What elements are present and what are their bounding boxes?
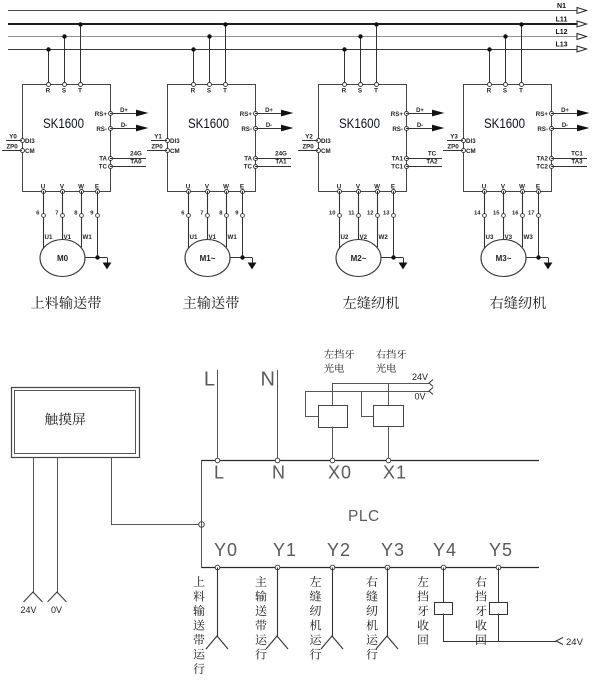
svg-text:CM: CM: [170, 148, 180, 155]
svg-text:X1: X1: [383, 463, 407, 483]
svg-text:RS-: RS-: [537, 126, 548, 133]
svg-text:Y3: Y3: [450, 134, 458, 141]
svg-text:T: T: [78, 88, 82, 95]
svg-text:N: N: [261, 369, 275, 391]
svg-text:0V: 0V: [414, 392, 425, 402]
svg-text:D+: D+: [416, 108, 424, 114]
svg-text:24G: 24G: [275, 151, 287, 158]
svg-text:S: S: [503, 88, 507, 95]
svg-text:S: S: [207, 88, 211, 95]
svg-text:15: 15: [493, 211, 500, 217]
svg-text:Y1: Y1: [154, 134, 162, 141]
svg-text:R: R: [342, 88, 347, 95]
svg-text:TA: TA: [99, 156, 107, 163]
svg-text:ZP0: ZP0: [151, 144, 163, 151]
svg-text:0V: 0V: [51, 605, 62, 615]
svg-text:7: 7: [200, 211, 203, 217]
svg-text:D-: D-: [121, 123, 127, 129]
svg-text:TC: TC: [244, 164, 253, 171]
svg-text:Y3: Y3: [381, 540, 405, 560]
svg-text:SK1600: SK1600: [188, 116, 229, 131]
svg-text:D-: D-: [562, 123, 568, 129]
svg-text:RS-: RS-: [96, 126, 107, 133]
svg-text:T: T: [374, 88, 378, 95]
svg-text:S: S: [358, 88, 362, 95]
svg-text:RS+: RS+: [240, 111, 253, 118]
svg-text:Y0: Y0: [9, 134, 17, 141]
svg-text:RS+: RS+: [391, 111, 404, 118]
svg-text:24V: 24V: [20, 605, 36, 615]
svg-text:RS+: RS+: [536, 111, 549, 118]
svg-text:D+: D+: [561, 108, 569, 114]
svg-text:DI3: DI3: [321, 138, 331, 145]
svg-text:24V: 24V: [566, 637, 584, 648]
svg-text:CM: CM: [466, 148, 476, 155]
svg-text:W1: W1: [228, 234, 238, 241]
svg-text:R: R: [46, 88, 51, 95]
svg-text:DI3: DI3: [170, 138, 180, 145]
svg-text:SK1600: SK1600: [339, 116, 380, 131]
svg-text:R: R: [487, 88, 492, 95]
svg-text:ZP0: ZP0: [6, 144, 18, 151]
svg-text:RS+: RS+: [95, 111, 108, 118]
svg-text:RS-: RS-: [241, 126, 252, 133]
svg-text:U1: U1: [190, 234, 198, 241]
svg-text:R: R: [191, 88, 196, 95]
svg-text:12: 12: [367, 211, 373, 217]
svg-text:TC: TC: [99, 164, 108, 171]
svg-text:DI3: DI3: [466, 138, 476, 145]
svg-text:D+: D+: [120, 108, 128, 114]
svg-text:N: N: [272, 463, 286, 483]
svg-text:U3: U3: [486, 234, 494, 241]
svg-text:SK1600: SK1600: [484, 116, 525, 131]
svg-text:ZP0: ZP0: [302, 144, 314, 151]
svg-text:RS-: RS-: [392, 126, 403, 133]
svg-text:Y4: Y4: [433, 540, 457, 560]
svg-text:U1: U1: [45, 234, 53, 241]
svg-text:TC1: TC1: [391, 164, 403, 171]
svg-text:TA: TA: [244, 156, 252, 163]
svg-text:14: 14: [474, 211, 481, 217]
svg-text:CM: CM: [321, 148, 331, 155]
svg-text:13: 13: [383, 211, 390, 217]
svg-text:TC2: TC2: [536, 164, 548, 171]
svg-text:24G: 24G: [130, 151, 142, 158]
svg-text:M2~: M2~: [351, 254, 367, 263]
svg-text:D-: D-: [266, 123, 272, 129]
svg-text:24V: 24V: [412, 372, 428, 382]
svg-text:W3: W3: [524, 234, 534, 241]
svg-text:11: 11: [348, 211, 355, 217]
svg-text:TA3: TA3: [571, 159, 583, 166]
svg-text:SK1600: SK1600: [43, 116, 84, 131]
svg-text:D-: D-: [417, 123, 423, 129]
svg-text:S: S: [62, 88, 66, 95]
svg-text:L12: L12: [555, 29, 567, 36]
svg-text:L: L: [214, 463, 225, 483]
svg-text:L: L: [204, 369, 215, 391]
svg-text:X0: X0: [328, 463, 352, 483]
svg-text:T: T: [519, 88, 523, 95]
svg-text:TC: TC: [428, 151, 437, 158]
svg-text:7: 7: [55, 211, 58, 217]
svg-text:DI3: DI3: [25, 138, 35, 145]
svg-text:ZP0: ZP0: [447, 144, 459, 151]
svg-text:10: 10: [329, 211, 335, 217]
svg-text:L13: L13: [555, 42, 567, 49]
svg-text:TA0: TA0: [130, 159, 142, 166]
svg-text:TA2: TA2: [426, 159, 438, 166]
svg-text:W1: W1: [83, 234, 93, 241]
svg-text:W2: W2: [379, 234, 389, 241]
svg-text:16: 16: [512, 211, 519, 217]
svg-text:PLC: PLC: [348, 508, 380, 525]
svg-text:TC1: TC1: [571, 151, 583, 158]
svg-text:TA1: TA1: [392, 156, 404, 163]
svg-text:CM: CM: [25, 148, 35, 155]
svg-text:Y5: Y5: [489, 540, 513, 560]
svg-text:U2: U2: [341, 234, 349, 241]
svg-text:N1: N1: [557, 3, 566, 10]
svg-text:M1~: M1~: [200, 254, 216, 263]
svg-text:T: T: [223, 88, 227, 95]
svg-text:Y2: Y2: [305, 134, 313, 141]
svg-text:17: 17: [528, 211, 534, 217]
svg-text:TA2: TA2: [537, 156, 549, 163]
svg-text:D+: D+: [265, 108, 273, 114]
svg-text:TA1: TA1: [275, 159, 287, 166]
svg-text:Y0: Y0: [214, 540, 238, 560]
svg-text:Y1: Y1: [273, 540, 297, 560]
svg-text:Y2: Y2: [327, 540, 351, 560]
svg-text:M3~: M3~: [496, 254, 512, 263]
svg-text:M0: M0: [57, 254, 69, 263]
svg-text:L11: L11: [556, 17, 568, 24]
